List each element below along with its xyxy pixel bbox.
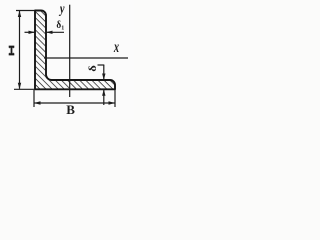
dimension delta upper arrow [103, 65, 105, 80]
extension line top (leg top edge extended left) [16, 10, 35, 12]
y axis [69, 5, 71, 97]
svg-text:δ: δ [88, 65, 99, 72]
dimension delta right: shelf [98, 64, 105, 66]
dimension line H [19, 11, 21, 89]
x axis [44, 57, 128, 59]
arrowhead H top [18, 11, 21, 18]
extension line B left [33, 90, 35, 107]
dimension delta1 right arrow [47, 31, 65, 33]
dimension delta lower arrow [103, 90, 105, 105]
arrowhead H bottom [18, 83, 21, 90]
arrowhead B right [109, 101, 116, 104]
svg-text:x: x [113, 38, 119, 56]
label x [113, 38, 119, 56]
dimension delta1 left arrow [25, 31, 35, 33]
dimension line B [35, 102, 115, 104]
extension line bottom (strip bottom edge extended left) [14, 88, 35, 90]
label delta1 [56, 20, 61, 32]
label H (rotated, drawn as path) [9, 46, 15, 56]
angle profile outline with hatching [35, 11, 115, 90]
extension line B right [114, 90, 116, 107]
svg-text:B: B [66, 102, 75, 117]
svg-text:1: 1 [61, 26, 64, 32]
label y [58, 1, 65, 17]
arrowhead B left [34, 101, 41, 104]
svg-text:y: y [58, 1, 65, 17]
label delta rotated [88, 65, 99, 72]
background [0, 0, 134, 119]
